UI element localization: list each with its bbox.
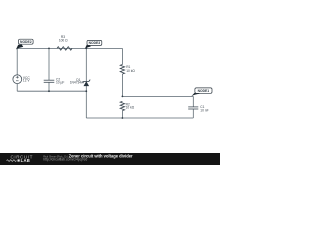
wire right vertical lower <box>192 109 194 118</box>
node label NODE2 <box>16 39 33 49</box>
resistor R3 100Ω <box>57 35 72 50</box>
zener diode D1 1N4734A <box>70 78 90 86</box>
capacitor C2 10µF <box>44 77 65 84</box>
footer bar <box>0 153 220 165</box>
wire mid horizontal <box>122 95 193 97</box>
wire left vertical upper <box>16 48 18 75</box>
wire D1 branch lower <box>85 86 87 118</box>
svg-text:10 kΩ: 10 kΩ <box>126 106 135 110</box>
junction dot bottom C2 <box>48 90 50 92</box>
wire between R1 and node <box>121 74 123 96</box>
svg-text:http://circuitlab.com/c/4pq7e6: http://circuitlab.com/c/4pq7e6 <box>43 157 87 161</box>
junction dot top D1 node <box>85 48 87 50</box>
CircuitLab logo <box>7 155 33 163</box>
svg-text:12 V: 12 V <box>23 79 31 83</box>
svg-text:NODE2: NODE2 <box>20 40 32 44</box>
resistor R1 10kΩ <box>120 65 135 74</box>
wire R2 lower stub <box>121 111 123 118</box>
svg-text:NODE1: NODE1 <box>198 89 210 93</box>
wire right column upper stub <box>121 48 123 64</box>
capacitor C1 10nF <box>188 105 208 113</box>
svg-text:NODE3: NODE3 <box>89 41 101 45</box>
svg-text:LAB: LAB <box>21 158 31 163</box>
svg-text:10 µF: 10 µF <box>56 81 64 85</box>
wire top horizontal <box>17 47 122 49</box>
wire bottom horizontal <box>86 117 193 119</box>
resistor R2 10kΩ <box>120 101 135 110</box>
svg-text:100 Ω: 100 Ω <box>59 38 68 42</box>
junction dot bottom D1 <box>85 90 87 92</box>
wire left vertical lower <box>16 83 18 91</box>
node label NODE1 <box>191 88 212 97</box>
junction dot R1-R2 node <box>122 96 124 98</box>
junction dot R2 bottom <box>122 117 124 119</box>
svg-text:1N4734A: 1N4734A <box>70 80 84 84</box>
svg-text:10 kΩ: 10 kΩ <box>126 69 135 73</box>
wire C2 branch upper <box>48 48 50 80</box>
node label NODE3 <box>85 40 102 48</box>
wire bottom-left horizontal <box>17 90 86 92</box>
wire right vertical upper <box>192 96 194 106</box>
svg-text:10 nF: 10 nF <box>200 109 208 113</box>
voltage source V1 VCC 12V <box>13 75 31 84</box>
junction dot top C2 <box>48 48 50 50</box>
wire D1 branch upper <box>85 48 87 81</box>
wire C2 branch lower <box>48 82 50 91</box>
